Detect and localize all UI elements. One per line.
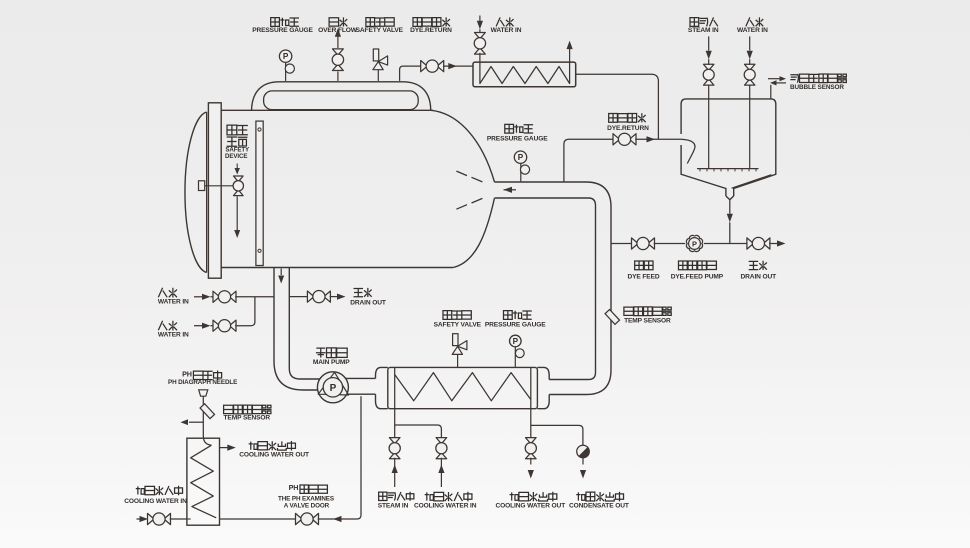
svg-text:P: P xyxy=(513,337,519,346)
label 加药泵浦 DYE.FEED PUMP xyxy=(671,261,724,281)
vessel bottom shell line xyxy=(221,267,453,269)
overflow arrow up xyxy=(335,28,341,37)
vessel top-right shoulder xyxy=(431,110,495,182)
dye return valve xyxy=(613,133,636,145)
svg-text:DEVICE: DEVICE xyxy=(225,153,247,160)
vessel left dome xyxy=(185,112,207,273)
svg-text:STEAM IN: STEAM IN xyxy=(688,27,719,34)
water in top wire xyxy=(477,16,483,34)
label 气泡式感应器 BUBBLE SENSOR xyxy=(790,74,847,91)
dye tank shell xyxy=(681,99,776,200)
cooling in branch xyxy=(395,425,442,439)
svg-text:STEAM IN: STEAM IN xyxy=(378,502,409,509)
dye tank inner taper line xyxy=(732,175,772,189)
label 压力表 PRESSURE GAUGE bottom xyxy=(485,311,546,329)
wire valve to pump xyxy=(654,243,686,245)
ph line in cooler xyxy=(187,518,191,520)
overflow valve stem xyxy=(337,36,339,81)
pipe flow arrow xyxy=(278,269,284,284)
cooling water out arrow xyxy=(220,445,236,451)
wire exchanger out to T xyxy=(576,74,659,139)
dye feed pump xyxy=(686,235,702,251)
svg-text:TEMP SENSOR: TEMP SENSOR xyxy=(624,318,671,325)
label 安全阀 SAFETY VALVE top xyxy=(356,18,404,34)
cooling out drop xyxy=(530,409,532,439)
expansion trough inner xyxy=(264,91,419,110)
svg-text:SAFETY VALVE: SAFETY VALVE xyxy=(356,27,404,34)
dye feed valve xyxy=(632,237,655,249)
wire pump to drain valve xyxy=(704,243,748,245)
safety valve V1 xyxy=(373,49,388,70)
wire into cooler xyxy=(170,518,187,520)
main exchanger coil xyxy=(395,373,531,401)
svg-text:PRESSURE GAUGE: PRESSURE GAUGE xyxy=(485,322,546,329)
drain out wire 1 xyxy=(289,296,308,298)
safety valve V2 xyxy=(452,334,467,368)
label PH检测阀 THE PH EXAMINES A VALVE DOOR xyxy=(278,483,334,509)
label 入水 WATER IN 1 xyxy=(158,288,189,306)
steam in arrow b xyxy=(392,458,398,487)
pressure gauge P2 xyxy=(514,151,529,181)
ph wire to pump xyxy=(318,396,361,522)
venturi flow arrow xyxy=(504,187,517,193)
dye tank sparger xyxy=(697,169,759,172)
label 冷凝水出口 CONDENSATE OUT xyxy=(569,492,629,510)
water in wire 2 xyxy=(194,323,214,329)
drain out arrow 1 xyxy=(330,294,346,300)
temp sensor on cooler line xyxy=(200,404,214,419)
steam in valve b xyxy=(389,438,400,459)
fabric guide bar xyxy=(256,121,263,265)
tank water valve xyxy=(744,64,755,85)
label 冷却水入口 COOLING WATER IN b xyxy=(414,492,477,510)
main pump xyxy=(317,372,348,403)
wire cooler to ph valve xyxy=(220,518,297,520)
svg-text:TEMP SENSOR: TEMP SENSOR xyxy=(224,414,271,421)
svg-text:COOLING WATER OUT: COOLING WATER OUT xyxy=(495,502,565,509)
cooler inlet curve xyxy=(203,430,211,445)
svg-text:WATER IN: WATER IN xyxy=(158,298,189,305)
label 蒸气入 STEAM IN top xyxy=(688,17,719,34)
svg-text:PH: PH xyxy=(289,483,299,492)
tank steam arrow xyxy=(706,36,712,65)
safety device arrow above xyxy=(235,164,240,175)
exchanger left header xyxy=(376,367,388,408)
safety device arrow below xyxy=(234,196,240,238)
label 排水 DRAIN OUT left xyxy=(350,288,386,307)
venturi lower cone dashes xyxy=(456,198,482,209)
bubble sensor xyxy=(768,76,786,99)
water in wire 1 xyxy=(194,294,214,300)
svg-text:CONDENSATE OUT: CONDENSATE OUT xyxy=(569,502,629,509)
overflow valve xyxy=(332,49,343,71)
temp sensor on pipe xyxy=(605,309,619,324)
label 温度感应器 TEMP SENSOR left xyxy=(224,405,272,421)
water in top valve xyxy=(474,33,485,55)
label 入水 WATER IN top xyxy=(491,17,522,34)
svg-text:COOLING WATER IN: COOLING WATER IN xyxy=(124,498,187,505)
wire valve to tank xyxy=(635,136,681,142)
svg-text:WATER IN: WATER IN xyxy=(158,331,189,338)
tank water drop pipe xyxy=(749,84,751,168)
safety device handle xyxy=(199,181,205,191)
safety device link wire xyxy=(205,185,233,187)
svg-text:PH DIAGRAPH NEEDLE: PH DIAGRAPH NEEDLE xyxy=(168,379,237,386)
cooling water in wire xyxy=(137,516,149,522)
label 压力表 PRESSURE GAUGE top xyxy=(252,18,313,34)
svg-text:DYE.RETURN: DYE.RETURN xyxy=(410,27,452,34)
safety device valve xyxy=(233,176,243,196)
label 温度感应器 TEMP SENSOR right xyxy=(624,307,672,325)
svg-text:P: P xyxy=(518,153,524,162)
cooling out arrow b xyxy=(528,458,534,479)
wire valve into exchanger xyxy=(479,53,481,62)
label 染液回流 DYE.RETURN mid xyxy=(607,113,649,132)
water in valve 2 xyxy=(213,320,236,332)
top exchanger coil xyxy=(480,63,570,84)
expansion trough outer xyxy=(252,82,431,111)
label 冷却水出口 COOLING WATER OUT b xyxy=(495,492,565,510)
cooler coil xyxy=(191,445,217,518)
svg-text:P: P xyxy=(283,52,289,61)
steam in drop xyxy=(394,409,396,439)
top exchanger vent arrow xyxy=(567,41,573,62)
label 排水 DRAIN OUT right xyxy=(741,261,777,281)
label 安全阀 SAFETY VALVE bottom xyxy=(434,311,482,329)
cooling out valve b xyxy=(525,438,536,459)
pressure gauge P3 xyxy=(510,335,525,367)
ph valve xyxy=(296,513,319,525)
venturi throat pipe xyxy=(495,182,612,207)
cooling in arrow b xyxy=(438,458,444,487)
tank water arrow xyxy=(747,36,753,65)
top heat exchanger shell xyxy=(473,62,576,87)
safety valve V1 stem xyxy=(377,70,379,81)
ph needle xyxy=(199,390,208,430)
svg-text:P: P xyxy=(692,240,697,249)
wire valve to exchanger xyxy=(443,63,473,69)
label 蒸气入口 STEAM IN b xyxy=(378,492,414,510)
label 安全装置 SAFETY DEVICE xyxy=(225,125,250,160)
label 溢流 OVER FLOW xyxy=(318,17,358,34)
svg-text:WATER IN: WATER IN xyxy=(737,27,768,34)
svg-text:P: P xyxy=(330,383,337,394)
label 冷却水出口 COOLING WATER OUT left xyxy=(239,441,309,458)
svg-text:DYE.RETURN: DYE.RETURN xyxy=(607,125,649,132)
svg-text:DRAIN OUT: DRAIN OUT xyxy=(350,299,386,306)
cooling water in valve xyxy=(148,513,171,525)
dye return top valve xyxy=(421,60,444,72)
exchanger internal verticals xyxy=(395,367,531,408)
svg-text:PRESSURE GAUGE: PRESSURE GAUGE xyxy=(487,136,548,143)
tank funnel drop wire xyxy=(727,200,733,244)
water in valve 1 xyxy=(213,291,236,303)
left drop pipe xyxy=(274,268,320,391)
condensate trap xyxy=(577,445,590,458)
label 冷却水入口 COOLING WATER IN left xyxy=(124,486,187,505)
svg-text:COOLING WATER IN: COOLING WATER IN xyxy=(414,502,477,509)
vessel top shell line xyxy=(221,109,433,111)
pressure gauge P1 xyxy=(279,50,294,81)
wire to drop pipe xyxy=(235,296,274,298)
drain out arrow 2 xyxy=(769,240,785,246)
venturi upper cone dashes xyxy=(456,171,482,182)
dye feed wire from pipe xyxy=(611,243,632,245)
cooling in valve b xyxy=(436,438,447,459)
svg-text:A VALVE DOOR: A VALVE DOOR xyxy=(284,502,330,509)
cooler temp arrow xyxy=(181,419,204,425)
vessel bottom-right shoulder xyxy=(453,198,495,268)
svg-text:WATER IN: WATER IN xyxy=(491,27,522,34)
svg-text:SAFETY VALVE: SAFETY VALVE xyxy=(434,322,482,329)
svg-text:PH: PH xyxy=(182,370,192,379)
label 主泵浦 MAIN PUMP xyxy=(313,348,350,366)
tank steam drop pipe xyxy=(708,84,710,168)
svg-text:OVER FLOW: OVER FLOW xyxy=(318,27,358,34)
svg-text:BUBBLE SENSOR: BUBBLE SENSOR xyxy=(790,84,844,91)
label 入水 WATER IN tank xyxy=(737,17,768,34)
cooler shell xyxy=(187,438,220,525)
label 加药 DYE FEED xyxy=(627,261,659,281)
label 压力表 PRESSURE GAUGE mid xyxy=(487,124,548,142)
wire trough to valve xyxy=(400,66,422,81)
condensate arrow xyxy=(580,458,586,479)
svg-text:PRESSURE GAUGE: PRESSURE GAUGE xyxy=(252,27,313,34)
exchanger right header xyxy=(537,367,549,408)
dye tank inlet hook xyxy=(681,139,695,163)
main pipe right run xyxy=(549,206,611,395)
svg-text:DRAIN OUT: DRAIN OUT xyxy=(741,274,777,281)
water in merge wire xyxy=(235,297,255,326)
label PH测定针 PH DIAGRAPH NEEDLE xyxy=(168,370,237,386)
svg-text:COOLING WATER OUT: COOLING WATER OUT xyxy=(239,451,309,458)
drain out valve 1 xyxy=(307,291,330,303)
drain out valve 2 xyxy=(747,237,770,249)
main exchanger shell xyxy=(388,367,538,408)
svg-text:MAIN PUMP: MAIN PUMP xyxy=(313,359,350,366)
condensate branch xyxy=(531,425,583,445)
tank steam valve xyxy=(703,64,714,85)
vessel door flange xyxy=(208,103,221,278)
dye return tap wire xyxy=(564,139,614,182)
label 入水 WATER IN 2 xyxy=(158,321,189,339)
svg-text:DYE.FEED PUMP: DYE.FEED PUMP xyxy=(671,274,724,281)
svg-text:DYE FEED: DYE FEED xyxy=(627,274,659,281)
label 染液回流 DYE.RETURN top xyxy=(410,17,452,34)
pump outlet pipe xyxy=(346,378,376,394)
